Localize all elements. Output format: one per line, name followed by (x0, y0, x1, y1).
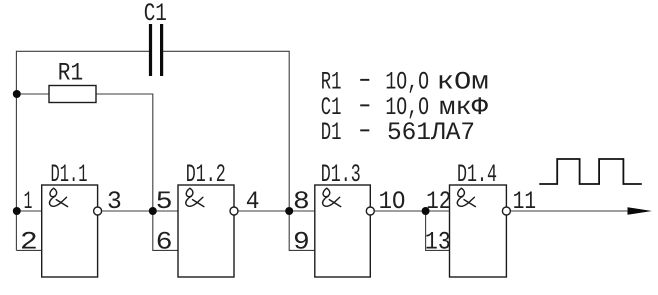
svg-text:8: 8 (293, 187, 310, 216)
gate D1.4 output bubble (502, 207, 510, 215)
NAND gate D1.4 (450, 185, 507, 277)
svg-text:5: 5 (156, 187, 173, 216)
junction node pin 5 (149, 207, 157, 215)
svg-text:кОм: кОм (437, 67, 489, 96)
svg-text:561ЛА7: 561ЛА7 (387, 118, 475, 147)
wire pin 9 (289, 211, 315, 250)
svg-text:2: 2 (20, 227, 38, 256)
svg-text:12: 12 (426, 187, 451, 216)
svg-text:-: - (355, 116, 375, 145)
svg-text:11: 11 (513, 187, 536, 216)
gate D1.2 ampersand (186, 188, 204, 206)
wire pin 8 (289, 210, 315, 212)
svg-text:3: 3 (107, 187, 122, 216)
junction node at R1 row (13, 90, 21, 98)
junction node pin 1 (13, 207, 21, 215)
gate D1.4 ampersand (457, 188, 475, 206)
svg-text:1О,О: 1О,О (385, 67, 429, 96)
svg-text:1: 1 (24, 187, 33, 216)
output arrowhead (628, 207, 653, 215)
wire pin 12 (426, 210, 450, 212)
svg-text:R1: R1 (321, 67, 342, 96)
wire output to arrow (510, 210, 645, 212)
wire pin 6 (153, 211, 178, 250)
waveform symbol (539, 159, 642, 184)
resistor R1 (49, 86, 96, 103)
wire R1 left (16, 93, 49, 95)
svg-text:D1.4: D1.4 (457, 160, 497, 189)
NAND gate D1.2 (178, 185, 234, 277)
wire D1.3 output to node (374, 210, 425, 212)
NAND gate D1.1 (42, 185, 98, 277)
svg-text:D1.1: D1.1 (51, 160, 88, 189)
svg-text:4: 4 (246, 187, 260, 216)
wire top rail right segment (163, 50, 289, 52)
svg-text:9: 9 (293, 227, 310, 256)
gate D1.3 ampersand (323, 188, 341, 206)
wire left rail (15, 51, 17, 251)
svg-text:C1: C1 (144, 0, 167, 28)
capacitor C1 (149, 24, 152, 76)
gate D1.1 ampersand (49, 188, 67, 206)
junction node pin 8 (285, 207, 293, 215)
junction node pin 12 (422, 207, 430, 215)
gate D1.3 output bubble (366, 207, 374, 215)
svg-text:1О: 1О (379, 187, 406, 216)
svg-text:R1: R1 (58, 58, 83, 87)
wire D1.1 output to node (102, 210, 153, 212)
wire right drop to pin 8 node (288, 51, 290, 211)
svg-text:D1.2: D1.2 (186, 160, 226, 189)
NAND gate D1.3 (315, 185, 371, 277)
svg-text:D1.3: D1.3 (321, 160, 361, 189)
gate D1.1 output bubble (94, 207, 102, 215)
wire pin 13 (426, 211, 450, 250)
wire D1.2 output to node (238, 210, 289, 212)
wire R1 right with drop to pin 5 node (96, 94, 153, 211)
svg-text:6: 6 (156, 227, 173, 256)
wire pin 1 (16, 210, 42, 212)
wire pin 5 (153, 210, 178, 212)
gate D1.2 output bubble (230, 207, 238, 215)
svg-text:D1: D1 (321, 118, 342, 147)
wire pin 2 (16, 249, 42, 251)
wire top rail left segment (16, 50, 149, 52)
svg-text:13: 13 (425, 227, 451, 256)
